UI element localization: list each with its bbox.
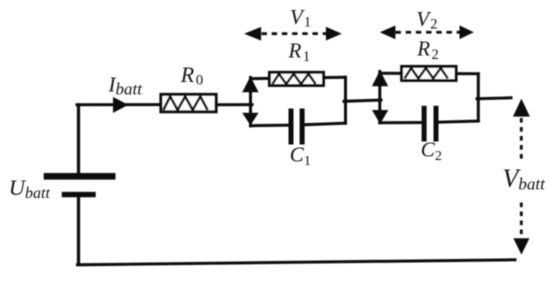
wire RC1 bottom branch right (303, 123, 345, 125)
wire RC2 top branch (380, 72, 479, 76)
resistor R1 (269, 72, 323, 85)
node arrows RC1 (down) (242, 113, 258, 126)
node RC2 left vertical (378, 72, 381, 123)
V2 measurement arrow (380, 25, 474, 39)
node arrows RC2 (down) (372, 110, 388, 124)
wire battery upper vertical (77, 105, 80, 175)
V1 measurement arrow (244, 27, 342, 41)
current arrow I_batt (113, 97, 128, 113)
resistor R0 (161, 94, 216, 111)
wire main left (77, 103, 160, 106)
capacitor C2 (424, 106, 436, 142)
node RC2 right vertical (477, 74, 480, 121)
battery U_batt bottom plate (62, 192, 96, 197)
wire RC2 bottom branch left (380, 121, 423, 124)
capacitor C1 (291, 109, 302, 145)
wire RC2 bottom branch right (437, 121, 478, 122)
wire output (477, 96, 511, 100)
node RC1 right vertical (344, 77, 347, 123)
node RC1 left vertical (249, 78, 252, 126)
V_batt measurement arrow (513, 99, 530, 255)
node arrows RC2 (up) (372, 70, 388, 86)
resistor R2 (402, 66, 457, 80)
wire battery lower vertical (77, 196, 80, 264)
node arrows RC1 (up) (242, 76, 258, 92)
wire RC1 bottom branch left (251, 124, 291, 128)
battery U_batt top plate (44, 173, 116, 180)
wire RC1 top branch (251, 77, 346, 78)
wire bottom (78, 260, 516, 265)
wire R0 to RC1 (217, 103, 253, 106)
wire RC1 to RC2 (344, 100, 381, 101)
